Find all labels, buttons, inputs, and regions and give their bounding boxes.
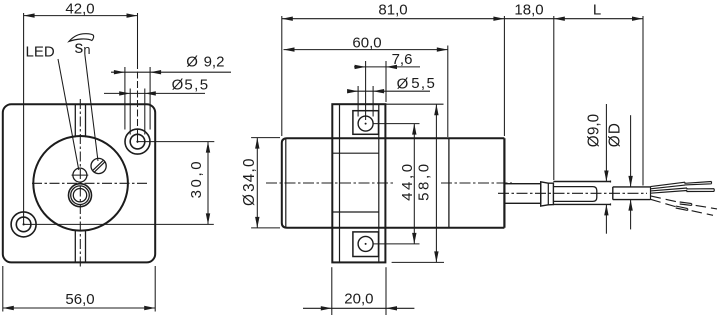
svg-text:Ø: Ø	[585, 135, 602, 147]
top dimension row line 81/18/L	[282, 18, 643, 20]
dimension O34,0 line	[256, 138, 258, 228]
screw boss bottom	[353, 232, 379, 257]
mounting hole top-right inner	[130, 134, 145, 149]
screw boss top	[353, 111, 379, 135]
svg-text:Ø: Ø	[241, 194, 258, 206]
LED crosshair	[72, 174, 89, 176]
dimension line O 9,2	[111, 71, 231, 73]
body outline	[282, 138, 505, 228]
dimension 20,0 line	[303, 307, 414, 309]
svg-text:18,0: 18,0	[514, 2, 543, 19]
svg-text:s: s	[75, 37, 84, 57]
svg-text:9,2: 9,2	[204, 53, 225, 70]
potentiometer screw	[91, 158, 106, 173]
wire 3 end piece	[680, 202, 692, 205]
O5,5 extension lines	[129, 89, 131, 135]
extension line right of 42,0	[137, 13, 139, 62]
20,0 extension lines	[331, 267, 333, 315]
svg-text:44,0: 44,0	[399, 161, 416, 201]
inner cable in sheath	[553, 187, 596, 202]
extension line 18 left / 81 right	[503, 16, 505, 136]
wire 4 dashed	[651, 199, 676, 206]
O5,5 side extension lines	[357, 86, 359, 117]
svg-text:5,5: 5,5	[184, 77, 209, 94]
dimension 44,0 line	[413, 124, 415, 244]
horizontal centerline	[32, 182, 148, 184]
hole bottom-left crosshair horizontal	[24, 223, 54, 225]
extension line 60 right	[447, 46, 449, 138]
mounting hole bottom-left inner	[16, 217, 31, 232]
mounting hole top-right center dot	[136, 141, 138, 143]
dimension O9,0 line	[605, 104, 607, 182]
screw hole top	[358, 116, 373, 131]
dimension 7,6 line	[354, 66, 420, 68]
screw slot	[93, 160, 104, 171]
58,0 extension bottom	[392, 261, 444, 263]
sensing face inner line	[285, 138, 287, 227]
extension line L left	[553, 16, 555, 180]
O9,2 extension lines	[124, 67, 126, 130]
mounting hole bottom-left center dot	[23, 223, 25, 225]
dimension 30,0 line	[207, 142, 209, 225]
sn symbol arc	[69, 34, 94, 42]
O34,0 extension lines	[251, 137, 280, 139]
dimension 60,0 line	[284, 49, 448, 51]
svg-text:D: D	[606, 123, 623, 134]
svg-text:Ø: Ø	[606, 135, 623, 147]
flange right step line	[378, 104, 380, 262]
body centerline	[266, 182, 394, 184]
wire 3 dashed tail	[692, 205, 717, 209]
wire 1 solid	[651, 182, 712, 189]
svg-text:34,0: 34,0	[241, 157, 258, 192]
svg-text:LED: LED	[26, 44, 55, 61]
sensing core inner ring	[73, 189, 86, 202]
cable sheath O9	[553, 181, 610, 183]
flange collar line lower	[332, 211, 379, 213]
extension line left (42,0 to hole)	[23, 13, 25, 224]
wire 3 dashed	[651, 196, 680, 203]
svg-text:81,0: 81,0	[378, 2, 407, 19]
dimension 58,0 line	[435, 104, 437, 262]
sensing core middle ring	[71, 186, 90, 205]
svg-text:56,0: 56,0	[65, 291, 94, 308]
dimension 56,0 line	[3, 307, 155, 309]
label O 9,0	[585, 114, 602, 147]
sn leader line	[85, 54, 98, 161]
label O 5,5 side	[397, 75, 437, 92]
sensor body circle	[33, 136, 128, 231]
svg-text:L: L	[593, 2, 601, 19]
30,0 extension top	[138, 141, 215, 143]
cable OD segment	[613, 187, 651, 200]
svg-text:58,0: 58,0	[416, 161, 433, 201]
wire 2 solid	[651, 188, 715, 193]
strain relief ferrule	[541, 182, 554, 206]
extension line 81 left	[281, 16, 283, 136]
flange left step line	[339, 104, 341, 262]
svg-text:Ø: Ø	[397, 75, 409, 92]
svg-text:20,0: 20,0	[344, 291, 373, 308]
44,0 extension bottom	[373, 243, 419, 245]
hole top-right centerline vertical	[137, 62, 139, 130]
body step at 60	[448, 138, 450, 228]
30,0 extension bottom	[54, 223, 214, 225]
58,0 extension top	[385, 103, 443, 105]
svg-text:42,0: 42,0	[65, 1, 94, 18]
flange plate outline	[3, 104, 155, 262]
extension line L right	[642, 16, 644, 186]
cable bushing	[504, 184, 540, 204]
wire 4 dashed tail	[688, 210, 713, 216]
slot line upper left	[74, 104, 76, 137]
svg-text:9,0: 9,0	[585, 114, 602, 135]
label O 5,5 front	[172, 77, 210, 94]
screw hole bottom	[358, 236, 373, 251]
mounting hole bottom-left outer	[11, 212, 36, 237]
56,0 extension lines	[2, 266, 4, 312]
flange collar line upper	[332, 152, 379, 154]
slot line upper right	[85, 104, 87, 137]
slot line lower left	[74, 230, 76, 263]
dimension 42,0 line	[24, 15, 138, 17]
vertical centerline	[79, 99, 81, 269]
svg-text:60,0: 60,0	[352, 34, 381, 51]
cable centerline	[498, 192, 647, 194]
svg-text:30,0: 30,0	[188, 159, 205, 199]
label O 34,0	[241, 157, 258, 206]
wire 4 end piece	[676, 206, 688, 210]
slot line lower right	[85, 230, 87, 263]
dimension OD line	[630, 115, 632, 187]
svg-text:Ø: Ø	[172, 77, 184, 94]
svg-text:7,6: 7,6	[392, 51, 413, 68]
svg-text:Ø: Ø	[186, 54, 198, 71]
label O D	[606, 123, 623, 147]
7,6 extension lines	[365, 61, 367, 120]
LED indicator circle	[73, 168, 87, 182]
LED leader line	[58, 59, 79, 170]
44,0 extension top	[373, 123, 419, 125]
label O 9,2	[186, 53, 224, 70]
sensing core outer ring	[69, 184, 92, 207]
mounting hole top-right outer	[125, 129, 150, 154]
body right face	[503, 138, 505, 228]
dimension line O 5,5	[104, 92, 205, 94]
flange slab	[332, 104, 385, 262]
dimension O5,5 side line	[350, 90, 430, 92]
svg-text:5,5: 5,5	[411, 75, 436, 92]
